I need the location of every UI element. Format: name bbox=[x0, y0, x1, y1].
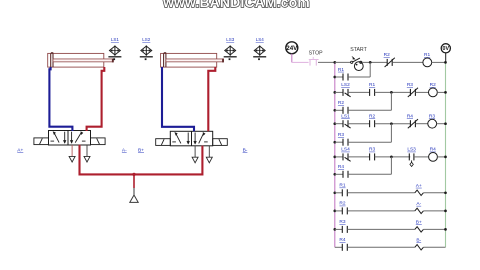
svg-text:B-: B- bbox=[416, 237, 421, 243]
svg-text:STOP: STOP bbox=[309, 51, 324, 57]
exhaust port 5 of V2 bbox=[192, 146, 198, 163]
wire latch 2 riser bbox=[390, 92, 392, 110]
wire out 6 seg a bbox=[335, 210, 343, 212]
wire latch 3 riser bbox=[390, 124, 392, 143]
contact LS2 limit switch (rung 2) bbox=[341, 82, 350, 97]
limit switch LS2 (distance rule) bbox=[140, 37, 153, 60]
svg-text:R1: R1 bbox=[338, 67, 344, 73]
svg-text:B+: B+ bbox=[416, 219, 422, 225]
limit switch LS3 (distance rule) bbox=[224, 37, 237, 60]
contact LS3 proximity switch (rung 4) bbox=[407, 147, 416, 167]
svg-text:LS2: LS2 bbox=[142, 37, 151, 42]
node left bus latch 1 bbox=[333, 76, 336, 79]
solenoid Y2 (A- side) of V1 bbox=[91, 138, 106, 145]
wire rung 2 seg a bbox=[335, 91, 343, 93]
wire R2nc to coil R1 bbox=[392, 61, 423, 63]
wire node J1 to START bbox=[335, 61, 351, 63]
wire latch 1 riser bbox=[369, 62, 371, 77]
tube cylinder A cap-end (blue) bbox=[49, 67, 72, 131]
svg-text:R3: R3 bbox=[407, 82, 413, 88]
wire rung 4 seg b bbox=[348, 156, 370, 158]
svg-text:R4: R4 bbox=[430, 147, 436, 153]
svg-text:R3: R3 bbox=[429, 114, 435, 120]
node left bus rung 2 bbox=[333, 91, 336, 94]
contact R2 (output rung 6) bbox=[339, 201, 347, 215]
valve solenoid B+ (output) bbox=[415, 219, 424, 232]
contact R1 latch (rung 1) bbox=[338, 67, 348, 81]
svg-text:R4: R4 bbox=[338, 164, 344, 170]
contact R1 (rung 2) bbox=[369, 82, 375, 96]
wire STOP to node J1 bbox=[318, 61, 335, 63]
svg-text:R2: R2 bbox=[339, 201, 345, 207]
node left bus out 7 bbox=[333, 228, 336, 231]
svg-text:R3: R3 bbox=[369, 147, 375, 153]
valve solenoid A+ (output) bbox=[415, 183, 424, 196]
tube cylinder B cap-end (blue) bbox=[162, 67, 194, 131]
wire rung 3 seg b bbox=[348, 123, 370, 125]
wire latch 1 left bbox=[335, 76, 343, 78]
tube cylinder A rod-end (red) bbox=[87, 67, 105, 131]
wire rung 4 coil to bus bbox=[437, 156, 445, 158]
relay coil R4 bbox=[429, 147, 438, 162]
wire coil R1 to right bus bbox=[432, 61, 446, 63]
wire out 5 seg a bbox=[335, 192, 343, 194]
node J3 (latch rejoin rung 3) bbox=[390, 122, 393, 125]
wire latch 3 left bbox=[335, 141, 343, 143]
power source +24V bbox=[286, 42, 298, 63]
svg-text:LS1: LS1 bbox=[341, 114, 350, 120]
wire latch 2 left bbox=[335, 109, 343, 111]
contact R3 (output rung 7) bbox=[339, 219, 347, 233]
svg-text:START: START bbox=[350, 47, 367, 53]
svg-text:0V: 0V bbox=[443, 46, 450, 52]
contact R2 latch (rung 2) bbox=[338, 100, 348, 114]
svg-text:A+: A+ bbox=[17, 147, 23, 153]
wire rung 3 seg c bbox=[375, 123, 411, 125]
svg-text:LS4: LS4 bbox=[256, 37, 265, 42]
svg-text:R3: R3 bbox=[338, 132, 344, 138]
contact R3 normally-closed (rung 2) bbox=[407, 82, 418, 97]
solenoid Y4 (B- side) of V2 bbox=[213, 139, 228, 146]
svg-text:R2: R2 bbox=[369, 114, 375, 120]
exhaust port 3 of V1 bbox=[84, 145, 90, 162]
wire rung 2 coil to bus bbox=[437, 91, 445, 93]
svg-text:R1: R1 bbox=[369, 82, 375, 88]
label B+ (solenoid Y3) bbox=[138, 147, 144, 153]
node left bus latch 2 bbox=[333, 109, 336, 112]
valve V1 5/2-way double solenoid bbox=[49, 131, 91, 146]
cylinder A (double-acting) bbox=[48, 52, 114, 67]
svg-text:A-: A- bbox=[122, 147, 127, 153]
exhaust port 5 of V1 bbox=[69, 145, 75, 162]
wire out 5 seg b bbox=[347, 192, 414, 194]
svg-text:A+: A+ bbox=[416, 183, 422, 189]
wire latch 4 riser bbox=[390, 157, 392, 174]
node left bus latch 4 bbox=[333, 173, 336, 176]
switch STOP (NC pushbutton, actuated - pink) bbox=[309, 51, 324, 66]
node left bus out 6 bbox=[333, 210, 336, 213]
right bus (green, 0V) bbox=[445, 62, 447, 247]
svg-text:R4: R4 bbox=[339, 237, 345, 243]
pressure supply manifold (red) bbox=[80, 145, 203, 175]
compressed air supply bbox=[130, 188, 138, 202]
wire rung 2 seg b bbox=[348, 91, 370, 93]
wire supply tee to source (red) bbox=[133, 174, 135, 188]
node right bus out 6 bbox=[444, 210, 447, 213]
node right bus rung 4 bbox=[444, 156, 447, 159]
node left bus rung 4 bbox=[333, 156, 336, 159]
node right bus out 5 bbox=[444, 191, 447, 194]
contact R3 (rung 4) bbox=[369, 147, 375, 161]
contact R2 (rung 3) bbox=[369, 114, 375, 128]
contact R3 latch (rung 3) bbox=[338, 132, 348, 146]
wire rung 3 seg d bbox=[416, 123, 428, 125]
left bus (pink, from STOP junction) bbox=[334, 62, 336, 247]
valve solenoid B- (output) bbox=[415, 237, 424, 250]
wire out 7 seg c bbox=[423, 228, 445, 230]
svg-text:LS4: LS4 bbox=[341, 147, 350, 153]
contact R1 (output rung 5) bbox=[339, 183, 347, 197]
relay coil R3 bbox=[428, 114, 437, 129]
wire START to node J2 bbox=[362, 61, 387, 63]
contact R2 normally-closed (rung 1) bbox=[384, 52, 395, 67]
exhaust port 3 of V2 bbox=[206, 146, 212, 163]
wire rung 4 seg a bbox=[335, 156, 343, 158]
watermark www.BANDICAM.com bbox=[162, 0, 310, 10]
node J1 (left bus top) bbox=[333, 61, 336, 64]
svg-text:R4: R4 bbox=[407, 114, 413, 120]
limit switch LS4 (distance rule) bbox=[253, 37, 266, 60]
node J4 (latch rejoin rung 4) bbox=[390, 156, 393, 159]
contact LS4 limit switch (rung 4) bbox=[341, 147, 350, 162]
label A+ (solenoid Y1) bbox=[17, 147, 23, 153]
contact R4 latch (rung 4) bbox=[338, 164, 348, 178]
wire latch 3 right bbox=[348, 141, 391, 143]
contact R4 (output rung 8) bbox=[339, 237, 347, 251]
label A- (solenoid Y2) bbox=[122, 147, 127, 153]
wire latch 4 left bbox=[335, 173, 343, 175]
svg-text:R1: R1 bbox=[424, 52, 430, 58]
wire out 6 seg c bbox=[423, 210, 445, 212]
svg-text:R3: R3 bbox=[339, 219, 345, 225]
svg-text:R2: R2 bbox=[338, 100, 344, 106]
svg-text:LS1: LS1 bbox=[111, 37, 120, 42]
relay coil R2 bbox=[429, 82, 438, 97]
cylinder B (double-acting) bbox=[161, 52, 224, 67]
svg-text:LS2: LS2 bbox=[341, 82, 350, 88]
svg-text:A-: A- bbox=[416, 201, 421, 207]
svg-text:LS3: LS3 bbox=[407, 147, 416, 153]
svg-text:LS3: LS3 bbox=[226, 37, 235, 42]
wire latch 1 right bbox=[348, 76, 370, 78]
node right bus rung 2 bbox=[444, 91, 447, 94]
wire rung 3 coil to bus bbox=[437, 123, 446, 125]
svg-text:B-: B- bbox=[243, 147, 248, 153]
limit switch LS1 (distance rule) bbox=[108, 37, 121, 60]
contact R4 normally-closed (rung 3) bbox=[407, 114, 418, 129]
svg-text:B+: B+ bbox=[138, 147, 144, 153]
wire out 8 seg b bbox=[347, 246, 414, 248]
wire latch 4 right bbox=[348, 173, 391, 175]
label B- (solenoid Y4) bbox=[243, 147, 248, 153]
wire rung 4 seg c bbox=[375, 156, 411, 158]
node J2 (latch rejoin) bbox=[369, 61, 372, 64]
node J2 (latch rejoin rung 2) bbox=[390, 91, 393, 94]
node manifold tee bbox=[132, 173, 135, 176]
valve solenoid A- (output) bbox=[415, 201, 424, 214]
node left bus latch 3 bbox=[333, 141, 336, 144]
wire rung 3 seg a bbox=[335, 123, 343, 125]
svg-text:R2: R2 bbox=[384, 52, 390, 58]
wire 24V to STOP (pink) bbox=[292, 61, 309, 63]
node left bus rung 3 bbox=[333, 122, 336, 125]
wire rung 2 seg d bbox=[416, 91, 429, 93]
node right bus rung 3 bbox=[444, 122, 447, 125]
pushbutton START (NO) bbox=[350, 47, 367, 71]
relay coil R1 bbox=[423, 52, 432, 67]
wire out 6 seg b bbox=[347, 210, 414, 212]
node right bus out 7 bbox=[444, 228, 447, 231]
node left bus out 5 bbox=[333, 191, 336, 194]
svg-text:24V: 24V bbox=[286, 45, 298, 52]
wire latch 2 right bbox=[348, 109, 391, 111]
wire out 5 seg c bbox=[423, 192, 445, 194]
svg-text:www.BANDICAM.com: www.BANDICAM.com bbox=[162, 0, 310, 10]
contact LS1 limit switch (rung 3) bbox=[341, 114, 350, 129]
solenoid Y3 (B+ side) of V2 bbox=[156, 139, 171, 146]
solenoid Y1 (A+ side) of V1 bbox=[34, 138, 49, 145]
wire out 8 seg a bbox=[335, 246, 343, 248]
valve V2 5/2-way double solenoid bbox=[170, 131, 212, 146]
node right bus rung 1 bbox=[444, 61, 447, 64]
svg-text:R1: R1 bbox=[339, 183, 345, 189]
wire rung 4 seg d bbox=[414, 156, 429, 158]
wire rung 2 seg c bbox=[375, 91, 411, 93]
power source 0V bbox=[441, 44, 450, 63]
tube cylinder B rod-end (red) bbox=[208, 67, 215, 131]
wire out 7 seg a bbox=[335, 228, 343, 230]
svg-text:R2: R2 bbox=[430, 82, 436, 88]
wire out 8 seg c bbox=[423, 246, 445, 248]
wire out 7 seg b bbox=[347, 228, 414, 230]
